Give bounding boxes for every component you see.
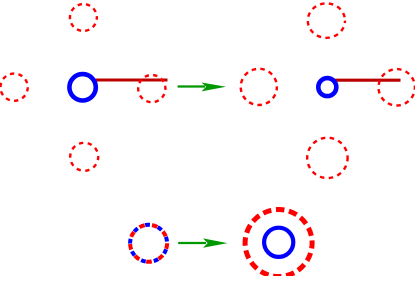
vacancy site V2 (dashed circle, left edge of left cluster) xyxy=(0,74,27,101)
vacancy site V8 (dashed circle, bottom of right cluster) xyxy=(307,138,347,178)
interstitial atom site I1: ring of alternating red dashes xyxy=(130,225,167,262)
vacancy site V5 (dashed ellipse, top of right cluster) xyxy=(308,3,345,37)
atom A1 (solid blue ring, left cluster) xyxy=(69,74,95,100)
atom A3 (solid blue ring inside I2) xyxy=(264,228,293,257)
bond line B2 (dark red, right cluster) xyxy=(335,79,401,82)
vacancy site V3 (dashed circle right of atom A1) xyxy=(138,75,165,102)
reaction arrow AR1 (green, top row) xyxy=(178,83,226,92)
vacancy site V7 (dashed circle, right edge, clipped) xyxy=(379,69,415,105)
interstitial site I2: large dashed red ring (bottom right) xyxy=(245,210,312,277)
vacancy site V4 (dashed circle, bottom of left cluster) xyxy=(70,143,98,171)
reaction arrow AR2 (green, bottom row) xyxy=(178,238,227,247)
vacancy site V1 (dashed circle, top of left cluster) xyxy=(70,4,97,31)
atom A2 (solid blue ring, right cluster) xyxy=(318,78,336,96)
interstitial atom site I1: blue dashes xyxy=(130,225,167,262)
bond line B1 (dark red, left cluster) xyxy=(96,78,168,81)
vacancy site V6 (dashed circle, left of right cluster) xyxy=(241,69,277,105)
